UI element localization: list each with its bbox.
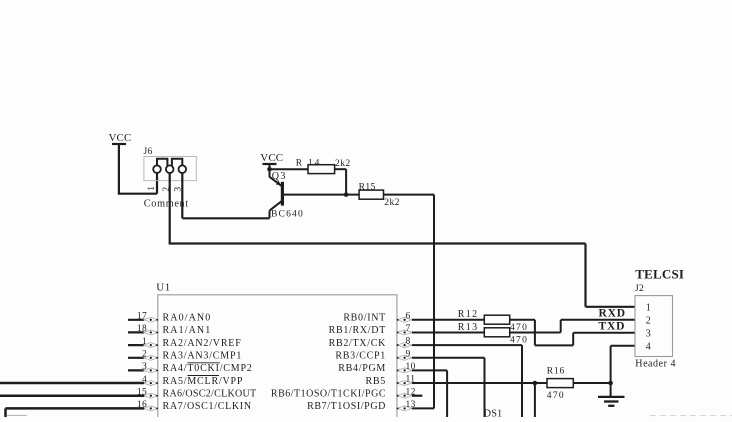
- svg-text:TELCSI: TELCSI: [635, 266, 684, 281]
- ground: [598, 383, 625, 406]
- wire junction to J2 pin 4: [611, 346, 635, 383]
- resistor R16: [547, 367, 611, 401]
- svg-text:RA4/T0CKI/CMP2: RA4/T0CKI/CMP2: [163, 363, 253, 374]
- svg-text:1: 1: [142, 337, 147, 347]
- op-amp U1: [156, 281, 397, 418]
- U1 left pin 18 (RA1/AN1): [128, 324, 211, 336]
- U1 left pin 16 (RA7/OSC1/CLKIN): [137, 400, 252, 412]
- svg-text:RB1/RX/DT: RB1/RX/DT: [329, 325, 386, 336]
- svg-text:R13: R13: [458, 322, 479, 333]
- junction dot VCC / R14 / Q3 emitter: [267, 167, 272, 172]
- svg-text:RA2/AN2/VREF: RA2/AN2/VREF: [163, 338, 242, 349]
- wire J6 pin 2 to J2 pin 1 (RXD net): [169, 173, 635, 307]
- svg-text:18: 18: [137, 324, 147, 334]
- resistor R13: [412, 322, 528, 346]
- wire RB2 (pin 8) down to DS1: [412, 345, 522, 418]
- svg-text:RA0/AN0: RA0/AN0: [163, 313, 212, 324]
- cut-off gray mark bottom-right: [650, 415, 732, 417]
- svg-text:RA6/OSC2/CLKOUT: RA6/OSC2/CLKOUT: [163, 389, 257, 400]
- svg-text:RB7/T1OSI/PGD: RB7/T1OSI/PGD: [307, 401, 386, 412]
- svg-text:470: 470: [510, 335, 528, 345]
- wire RA6 to left edge: [0, 394, 144, 397]
- U1 left pin 4 (RA5/MCLR/VPP): [142, 375, 243, 387]
- wire RB4 (pin 10) down: [412, 370, 447, 418]
- svg-text:R12: R12: [458, 309, 479, 320]
- svg-text:RXD: RXD: [599, 308, 626, 320]
- cut-off component edge bottom-left: [7, 414, 27, 416]
- svg-text:RA1/AN1: RA1/AN1: [163, 325, 212, 336]
- svg-text:4: 4: [646, 341, 651, 352]
- svg-text:DS1: DS1: [484, 409, 503, 417]
- svg-text:J2: J2: [635, 284, 644, 294]
- resistor R14: [270, 159, 351, 195]
- svg-text:RB2/TX/CK: RB2/TX/CK: [329, 338, 386, 349]
- U1 left pin 15 (RA6/OSC2/CLKOUT): [137, 388, 257, 400]
- U1 pin 12 stub: [412, 395, 422, 397]
- svg-text:3: 3: [142, 362, 147, 372]
- svg-text:R15: R15: [359, 183, 376, 193]
- svg-text:2: 2: [646, 315, 651, 326]
- wire U1 pin 13 stub: [412, 407, 434, 409]
- svg-text:17: 17: [137, 312, 147, 322]
- wire junction down to DS1: [534, 383, 536, 418]
- svg-text:TXD: TXD: [599, 321, 626, 333]
- connector J6: [144, 147, 197, 181]
- svg-text:2k2: 2k2: [384, 198, 400, 208]
- svg-text:RA7/OSC1/CLKIN: RA7/OSC1/CLKIN: [163, 401, 252, 412]
- svg-text:RB3/CCP1: RB3/CCP1: [335, 351, 386, 362]
- svg-text:RB6/T1OSO/T1CKI/PGC: RB6/T1OSO/T1CKI/PGC: [271, 389, 386, 400]
- wire RB5 (pin 11) to R16: [412, 382, 547, 384]
- svg-text:3: 3: [646, 328, 651, 339]
- U1 left pin 1 (RA2/AN2/VREF): [128, 337, 242, 349]
- U1 right pin 9 (RB3/CCP1): [335, 349, 412, 361]
- wire R12 to J2 pin 3 (TXD net): [510, 320, 635, 346]
- U1 left pin 3 (RA4/T0CKI/CMP2): [128, 362, 253, 374]
- U1 right pin 6 (RB0/INT): [343, 311, 412, 323]
- junction dot R16 left / drop: [533, 381, 538, 386]
- wire VCC to J6 pin 1: [118, 173, 157, 194]
- svg-text:9: 9: [406, 349, 411, 359]
- svg-text:1: 1: [147, 186, 157, 191]
- svg-text:RA3/AN3/CMP1: RA3/AN3/CMP1: [163, 351, 243, 362]
- wire R13 to J2 pin 2 (RXD net): [510, 320, 635, 333]
- svg-text:R 14: R 14: [296, 159, 321, 169]
- svg-text:RB0/INT: RB0/INT: [343, 313, 386, 324]
- transistor Q3 BC640: [270, 171, 304, 220]
- resistor R12: [412, 309, 528, 333]
- U1 right pin 8 (RB2/TX/CK): [329, 337, 412, 349]
- svg-text:VCC: VCC: [260, 152, 283, 164]
- svg-text:2: 2: [142, 350, 147, 360]
- svg-text:BC640: BC640: [271, 210, 304, 220]
- svg-text:6: 6: [406, 311, 411, 321]
- svg-text:RB4/PGM: RB4/PGM: [338, 363, 386, 374]
- svg-text:8: 8: [406, 337, 411, 347]
- svg-text:1: 1: [646, 302, 651, 313]
- svg-text:RB5: RB5: [366, 376, 386, 387]
- wire J6 pin 3 to Q3 collector: [182, 173, 269, 219]
- U1 right pin 7 (RB1/RX/DT): [329, 324, 412, 336]
- wire RA5 to left edge: [0, 382, 144, 385]
- U1 left pin 2 (RA3/AN3/CMP1): [128, 350, 242, 362]
- svg-text:VCC: VCC: [109, 132, 132, 144]
- svg-text:U1: U1: [156, 281, 170, 293]
- U1 left pin 17 (RA0/AN0): [128, 312, 211, 324]
- svg-text:470: 470: [547, 391, 565, 401]
- U1 right pin 12 (RB6/T1OSO/T1CKI/PGC): [271, 387, 416, 399]
- resistor R15: [282, 183, 434, 208]
- wire R15 to U1 pin 13: [433, 195, 435, 409]
- power symbol VCC (Q3): [260, 152, 283, 177]
- connector J2: [635, 284, 676, 369]
- svg-text:Header 4: Header 4: [635, 358, 676, 369]
- svg-text:RA5/MCLR/VPP: RA5/MCLR/VPP: [163, 376, 244, 387]
- svg-text:7: 7: [406, 324, 411, 334]
- junction dot R16 right / ground / J2 pin 4: [608, 381, 613, 386]
- power symbol VCC (left): [109, 132, 132, 194]
- svg-text:2k2: 2k2: [335, 159, 351, 169]
- wire RA7 down left edge: [6, 408, 145, 418]
- U1 right pin 10 (RB4/PGM): [338, 362, 416, 374]
- junction dot R14 / R15 / Q3 base: [344, 192, 349, 197]
- svg-text:J6: J6: [144, 147, 153, 157]
- U1 right pin 13 (RB7/T1OSI/PGD): [307, 400, 416, 412]
- U1 right pin 11 (RB5): [366, 375, 416, 387]
- wire RB3 (pin 9) down to DS1: [412, 358, 485, 418]
- svg-text:R16: R16: [547, 367, 565, 377]
- svg-text:Q3: Q3: [272, 171, 287, 182]
